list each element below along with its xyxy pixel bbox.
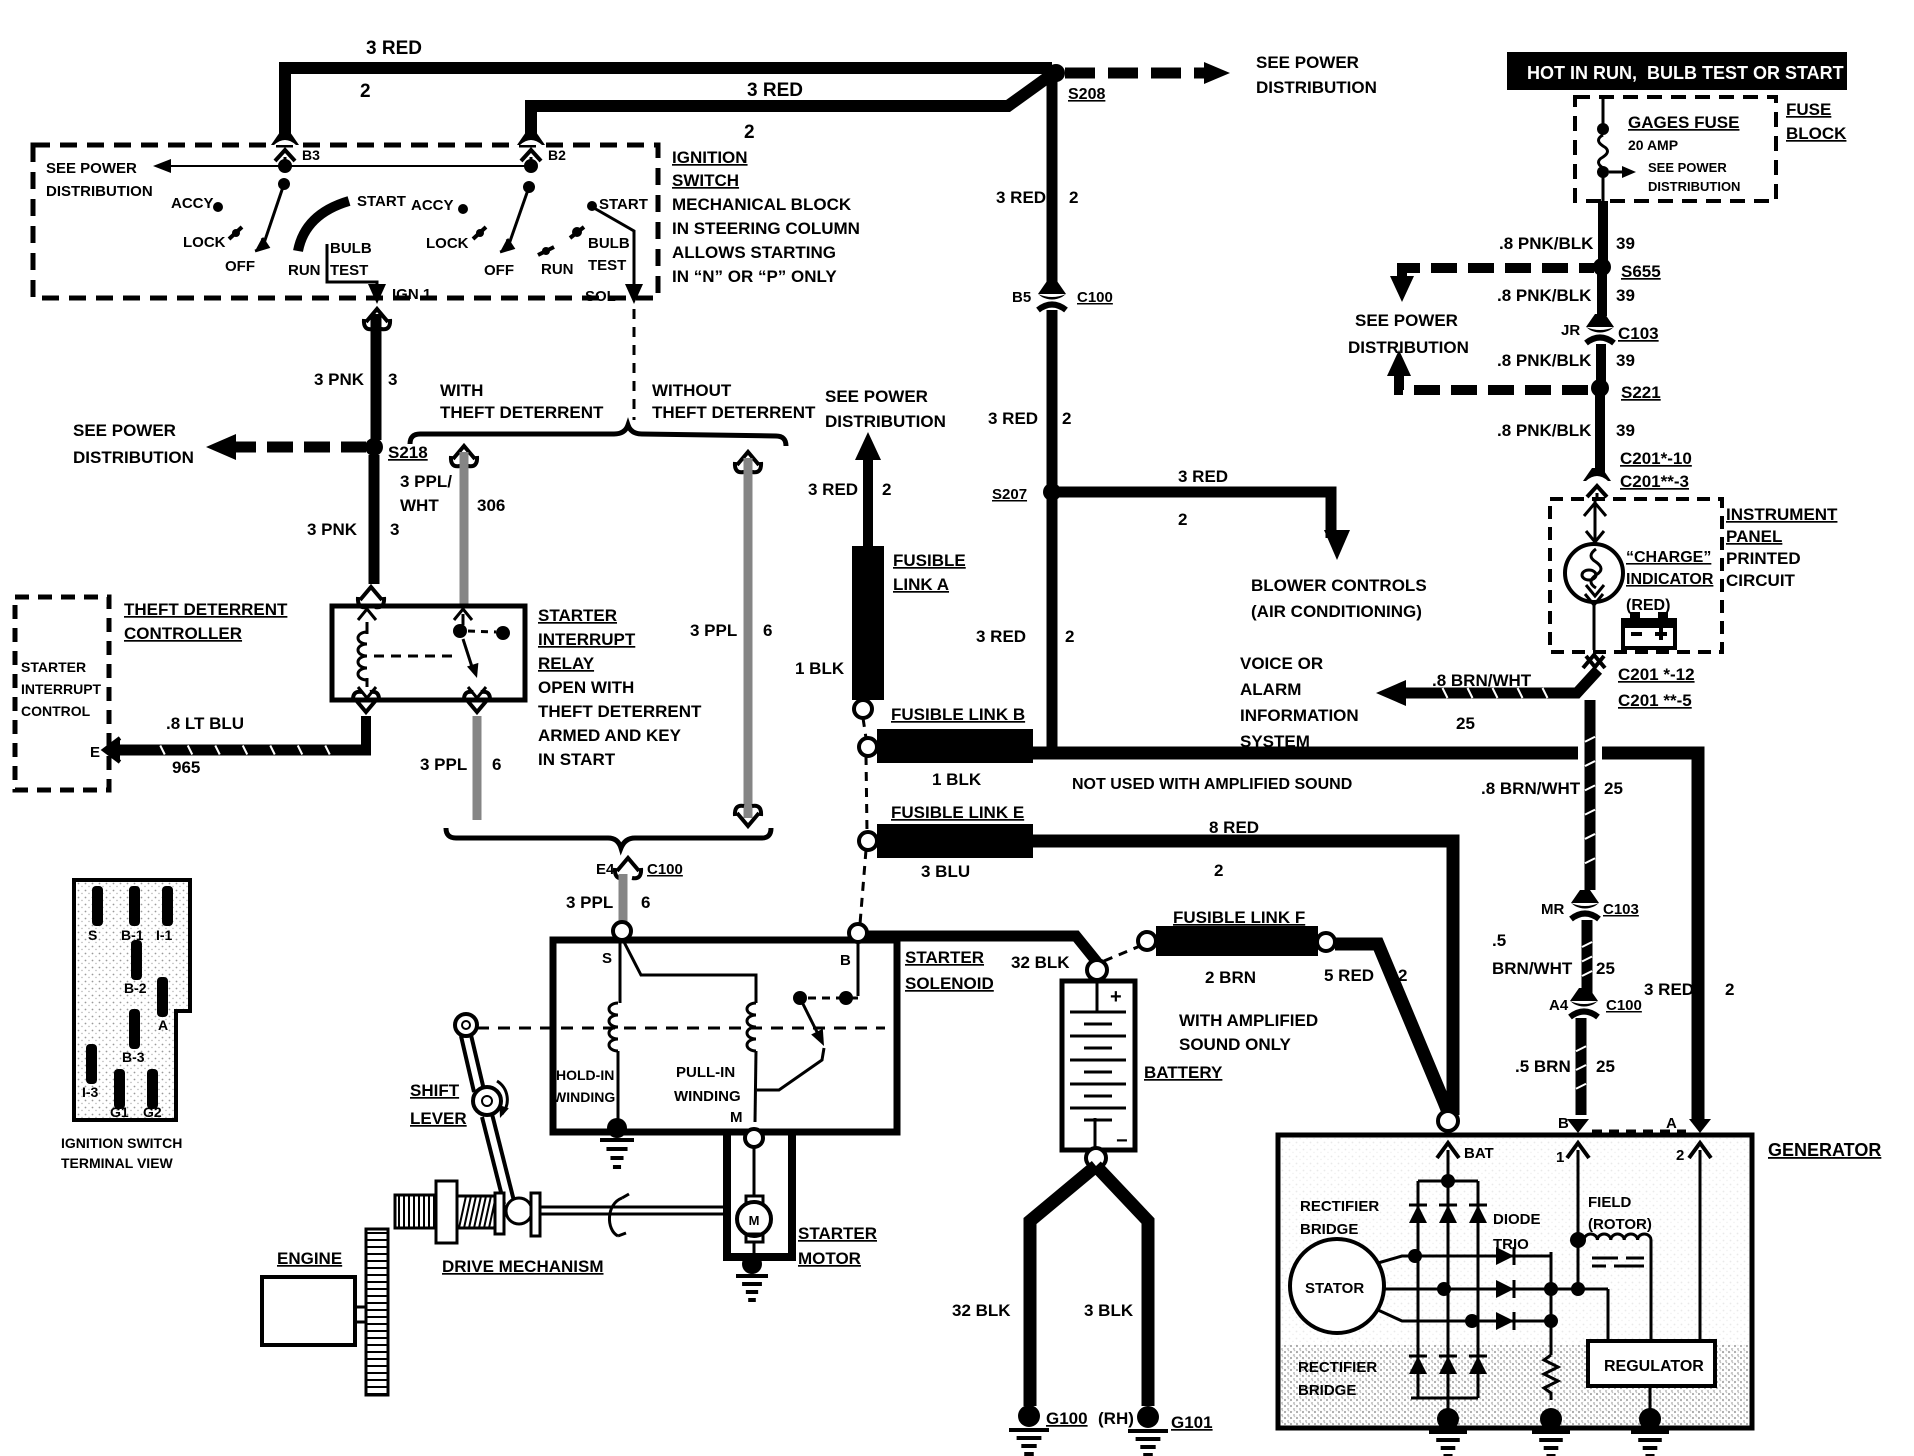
svg-text:JR: JR [1561, 322, 1580, 339]
svg-text:DISTRIBUTION: DISTRIBUTION [46, 183, 153, 200]
svg-text:RUN: RUN [288, 262, 321, 279]
svg-text:25: 25 [1596, 959, 1615, 978]
svg-text:B-2: B-2 [124, 980, 147, 996]
terminal B [849, 924, 867, 942]
svg-text:THEFT DETERRENT: THEFT DETERRENT [538, 702, 702, 721]
svg-text:3 BLK: 3 BLK [1084, 1301, 1134, 1320]
svg-text:STARTER: STARTER [905, 948, 984, 967]
svg-text:CONTROLLER: CONTROLLER [124, 624, 242, 643]
svg-text:S655: S655 [1621, 262, 1661, 281]
pin G2 [147, 1069, 158, 1109]
svg-text:E: E [90, 744, 100, 761]
svg-text:IGNITION SWITCH: IGNITION SWITCH [61, 1135, 182, 1151]
terminal S [613, 922, 631, 940]
fusible link B [859, 738, 877, 756]
svg-text:2: 2 [1062, 409, 1071, 428]
svg-text:.8 LT BLU: .8 LT BLU [166, 714, 244, 733]
svg-text:B: B [1558, 1115, 1569, 1132]
svg-text:LOCK: LOCK [183, 234, 226, 251]
svg-text:BLOCK: BLOCK [1786, 124, 1847, 143]
wire .8 LT BLU [118, 745, 371, 756]
svg-text:OFF: OFF [225, 258, 255, 275]
svg-text:C103: C103 [1618, 324, 1659, 343]
svg-text:S: S [602, 950, 612, 967]
svg-text:SWITCH: SWITCH [672, 171, 739, 190]
svg-text:GENERATOR: GENERATOR [1768, 1140, 1881, 1160]
regulator box [1588, 1341, 1715, 1386]
switch 2 START contact [587, 201, 597, 211]
svg-text:C201 *-12: C201 *-12 [1618, 665, 1695, 684]
wire dashed to power distribution left [230, 442, 366, 453]
svg-text:8 RED: 8 RED [1209, 818, 1259, 837]
svg-text:3 PNK: 3 PNK [307, 520, 358, 539]
svg-text:3 PPL: 3 PPL [420, 755, 467, 774]
svg-text:INSTRUMENT: INSTRUMENT [1726, 505, 1838, 524]
wire dashed link column [863, 718, 866, 738]
svg-text:B5: B5 [1012, 289, 1031, 306]
wire 5 RED link F to generator BAT [1335, 944, 1448, 1112]
svg-text:3 RED: 3 RED [808, 480, 858, 499]
drive T flange [531, 1193, 540, 1236]
svg-text:25: 25 [1456, 714, 1475, 733]
svg-text:DISTRIBUTION: DISTRIBUTION [1348, 338, 1469, 357]
svg-text:“CHARGE”: “CHARGE” [1626, 549, 1711, 566]
pin I-3 [86, 1044, 97, 1084]
svg-text:DISTRIBUTION: DISTRIBUTION [1648, 179, 1740, 194]
svg-text:SEE POWER: SEE POWER [825, 387, 928, 406]
svg-text:IN “N” OR “P” ONLY: IN “N” OR “P” ONLY [672, 267, 837, 286]
svg-text:3 RED: 3 RED [988, 409, 1038, 428]
svg-text:B2: B2 [548, 147, 566, 163]
generator box [1278, 1135, 1752, 1428]
svg-text:BATTERY: BATTERY [1144, 1063, 1223, 1082]
wire START to SOL [594, 208, 634, 285]
svg-text:A: A [1666, 1115, 1677, 1132]
wire 32 BLK solenoid B to battery [867, 936, 1097, 962]
wire 3 RED to blower controls [1058, 492, 1331, 538]
pin I-1 [162, 886, 173, 926]
svg-text:BULB: BULB [330, 240, 372, 257]
svg-text:SEE POWER: SEE POWER [46, 160, 137, 177]
svg-text:.5: .5 [1492, 931, 1506, 950]
svg-text:ENGINE: ENGINE [277, 1249, 342, 1268]
svg-text:S221: S221 [1621, 383, 1661, 402]
pin G1 [114, 1069, 125, 1109]
shift lever [455, 1014, 477, 1036]
svg-text:1 BLK: 1 BLK [932, 770, 982, 789]
svg-text:.5 BRN: .5 BRN [1515, 1057, 1571, 1076]
ground G100 [1018, 1405, 1040, 1427]
svg-text:(AIR CONDITIONING): (AIR CONDITIONING) [1251, 602, 1422, 621]
switch 1 LOCK contact [229, 227, 242, 239]
svg-text:3 RED: 3 RED [747, 80, 803, 101]
svg-text:IGN 1: IGN 1 [392, 286, 431, 303]
svg-text:ACCY: ACCY [411, 197, 454, 214]
svg-text:25: 25 [1604, 779, 1623, 798]
svg-text:WHT: WHT [400, 496, 439, 515]
svg-text:BULB: BULB [588, 235, 630, 252]
banner HOT IN RUN BULB TEST OR START [1507, 52, 1847, 90]
svg-text:G101: G101 [1171, 1413, 1213, 1432]
svg-text:(RH): (RH) [1098, 1409, 1134, 1428]
starter interrupt relay box [332, 606, 525, 700]
wire .5 BRN/WHT [1582, 920, 1593, 994]
svg-text:SOL: SOL [585, 288, 616, 305]
field to regulator connections [1551, 1288, 1608, 1291]
svg-text:(ROTOR): (ROTOR) [1588, 1216, 1652, 1233]
terminal BAT [1438, 1111, 1458, 1131]
svg-text:2 BRN: 2 BRN [1205, 968, 1256, 987]
svg-text:S: S [88, 927, 97, 943]
svg-text:ARMED AND KEY: ARMED AND KEY [538, 726, 682, 745]
svg-text:1 BLK: 1 BLK [795, 659, 845, 678]
svg-text:DRIVE MECHANISM: DRIVE MECHANISM [442, 1257, 604, 1276]
svg-text:C100: C100 [1606, 997, 1642, 1014]
node below link A [854, 700, 872, 718]
svg-text:I-3: I-3 [82, 1084, 99, 1100]
svg-text:B3: B3 [302, 147, 320, 163]
svg-text:BRIDGE: BRIDGE [1300, 1221, 1358, 1238]
svg-text:39: 39 [1616, 421, 1635, 440]
wire dashed link column 3 [860, 850, 866, 924]
wire 3 PPL 6 (grey, without theft deterrent) [735, 452, 761, 472]
battery + terminal [1087, 960, 1107, 980]
splice S218 [365, 438, 383, 456]
svg-text:S207: S207 [992, 486, 1027, 503]
svg-text:START: START [599, 196, 648, 213]
svg-text:FUSIBLE: FUSIBLE [893, 551, 966, 570]
pin S [92, 886, 103, 926]
svg-text:25: 25 [1596, 1057, 1615, 1076]
wire dashed SOL to brace [633, 309, 636, 420]
svg-text:2: 2 [744, 122, 755, 143]
svg-text:MR: MR [1541, 901, 1564, 918]
relay switch [454, 609, 472, 620]
svg-text:FUSIBLE LINK F: FUSIBLE LINK F [1173, 908, 1305, 927]
starter solenoid box [553, 940, 897, 1132]
wire .8 BRN/WHT vertical (instrument to generator B) [1578, 704, 1602, 788]
svg-text:2: 2 [1676, 1147, 1684, 1164]
svg-text:M: M [730, 1109, 743, 1126]
svg-text:LEVER: LEVER [410, 1109, 467, 1128]
svg-text:PULL-IN: PULL-IN [676, 1064, 735, 1081]
switch 2 lever [508, 187, 529, 247]
svg-text:STARTER: STARTER [538, 606, 617, 625]
svg-text:SEE POWER: SEE POWER [1355, 311, 1458, 330]
svg-text:3 RED: 3 RED [976, 627, 1026, 646]
wire relay coil to .8 LT BLU [353, 692, 379, 712]
svg-text:A: A [158, 1017, 168, 1033]
svg-text:ACCY: ACCY [171, 195, 214, 212]
svg-text:2: 2 [1178, 510, 1187, 529]
diode trio [1415, 1255, 1551, 1258]
svg-text:INTERRUPT: INTERRUPT [21, 681, 102, 697]
battery plates [1096, 981, 1099, 1012]
stator [1290, 1239, 1384, 1333]
fuse block dashed box [1575, 97, 1776, 201]
svg-text:20 AMP: 20 AMP [1628, 137, 1678, 153]
svg-text:.8 PNK/BLK: .8 PNK/BLK [1497, 421, 1592, 440]
svg-text:+: + [1110, 986, 1122, 1008]
svg-text:(RED): (RED) [1626, 597, 1670, 614]
svg-text:6: 6 [763, 621, 772, 640]
svg-text:HOT IN RUN, BULB TEST OR STAR: HOT IN RUN, BULB TEST OR START [1527, 63, 1844, 83]
charge indicator bulb [1594, 501, 1597, 541]
svg-text:PRINTED: PRINTED [1726, 549, 1801, 568]
wire IGN 1 [327, 244, 377, 292]
svg-text:WITHOUT: WITHOUT [652, 381, 732, 400]
drive hatched sleeve [457, 1196, 495, 1228]
rectifier diodes top [1409, 1204, 1427, 1207]
wire .8 PNK/BLK S221 to C201 [1595, 393, 1605, 478]
svg-text:REGULATOR: REGULATOR [1604, 1358, 1704, 1375]
svg-text:2: 2 [1065, 627, 1074, 646]
svg-text:1: 1 [1556, 1149, 1564, 1166]
svg-text:S208: S208 [1068, 86, 1105, 103]
switch 2 ACCY contact [458, 204, 468, 214]
svg-text:IN START: IN START [538, 750, 616, 769]
ignition switch dashed box [33, 145, 658, 298]
svg-text:START: START [357, 193, 406, 210]
svg-text:WITH: WITH [440, 381, 483, 400]
svg-text:.8 BRN/WHT: .8 BRN/WHT [1432, 671, 1532, 690]
solenoid switch [857, 941, 860, 996]
drive ball [506, 1198, 532, 1224]
svg-text:6: 6 [492, 755, 501, 774]
svg-text:ALLOWS STARTING: ALLOWS STARTING [672, 243, 836, 262]
svg-text:STARTER: STARTER [21, 659, 86, 675]
svg-text:A4: A4 [1549, 997, 1569, 1014]
svg-text:FUSIBLE LINK E: FUSIBLE LINK E [891, 803, 1024, 822]
wire .8 PNK/BLK fuse to S655 [1598, 201, 1608, 262]
svg-text:THEFT DETERRENT: THEFT DETERRENT [440, 403, 604, 422]
theft deterrent controller dashed box [15, 597, 109, 790]
svg-text:RECTIFIER: RECTIFIER [1298, 1359, 1377, 1376]
wire 3 PPL 6 relay output (grey) [464, 692, 490, 712]
svg-text:SEE POWER: SEE POWER [1648, 160, 1727, 175]
svg-text:2: 2 [1398, 966, 1407, 985]
svg-text:RELAY: RELAY [538, 654, 595, 673]
hold-in ground [607, 1118, 627, 1138]
wire .8 PNK/BLK C103 to S221 [1596, 344, 1606, 388]
drive mechanism worm [395, 1195, 438, 1228]
brace to E4 [446, 828, 771, 848]
solenoid link dashed line [477, 1027, 885, 1030]
svg-text:SYSTEM: SYSTEM [1240, 732, 1310, 751]
generator ground 1 [1437, 1408, 1459, 1430]
svg-text:I-1: I-1 [156, 927, 173, 943]
wire .8 PNK/BLK S655 to C103 [1597, 272, 1607, 316]
svg-text:2: 2 [1214, 861, 1223, 880]
svg-text:3 RED: 3 RED [366, 38, 422, 59]
wire 3 RED (top feed to B3) [285, 68, 1052, 140]
field rotor [1570, 1232, 1586, 1248]
svg-text:SOLENOID: SOLENOID [905, 974, 994, 993]
wire 32 BLK battery to G100 [1030, 1166, 1096, 1406]
splice S208 [1047, 64, 1065, 82]
switch 1 lever [263, 184, 284, 246]
svg-text:C100: C100 [1077, 289, 1113, 306]
svg-text:G2: G2 [143, 1104, 162, 1120]
svg-text:39: 39 [1616, 234, 1635, 253]
wire dashed S655 to power distribution [1402, 268, 1594, 276]
svg-text:965: 965 [172, 758, 200, 777]
svg-text:BRIDGE: BRIDGE [1298, 1382, 1356, 1399]
gages fuse [1602, 97, 1605, 126]
relay coil [366, 622, 369, 634]
rectifier bridge verticals [1441, 1174, 1455, 1188]
svg-text:DIODE: DIODE [1493, 1211, 1541, 1228]
svg-text:MOTOR: MOTOR [798, 1249, 861, 1268]
engine shaft stub [355, 1307, 366, 1322]
svg-text:DISTRIBUTION: DISTRIBUTION [825, 412, 946, 431]
ignition switch terminal view connector [74, 880, 190, 1120]
svg-text:2: 2 [882, 480, 891, 499]
svg-text:SHIFT: SHIFT [410, 1081, 460, 1100]
svg-text:TEST: TEST [330, 262, 368, 279]
svg-text:M: M [749, 1213, 760, 1228]
shaft rotation arc [609, 1198, 622, 1236]
svg-text:SEE POWER: SEE POWER [1256, 53, 1359, 72]
svg-text:TRIO: TRIO [1493, 1236, 1529, 1253]
svg-text:NOT USED WITH AMPLIFIED SOUND: NOT USED WITH AMPLIFIED SOUND [1072, 776, 1352, 793]
wire internal bus B3-B2 [160, 165, 531, 167]
wire 3 RED trunk S208 to C100 [1047, 78, 1058, 284]
svg-text:3: 3 [388, 370, 397, 389]
svg-text:C100: C100 [647, 861, 683, 878]
svg-text:IN STEERING COLUMN: IN STEERING COLUMN [672, 219, 860, 238]
svg-text:3 PPL: 3 PPL [566, 893, 613, 912]
svg-text:BLOWER CONTROLS: BLOWER CONTROLS [1251, 576, 1427, 595]
wire dashed S221 to power distribution [1387, 350, 1411, 376]
svg-text:WINDING: WINDING [553, 1089, 615, 1105]
svg-text:RUN: RUN [541, 261, 574, 278]
starter motor [753, 1147, 756, 1196]
svg-text:DISTRIBUTION: DISTRIBUTION [73, 448, 194, 467]
svg-text:STATOR: STATOR [1305, 1280, 1364, 1297]
switch 2 LOCK contact [473, 227, 486, 239]
svg-text:306: 306 [477, 496, 505, 515]
svg-text:2: 2 [1725, 980, 1734, 999]
svg-text:THEFT DETERRENT: THEFT DETERRENT [652, 403, 816, 422]
battery box [1062, 981, 1135, 1150]
svg-text:5 RED: 5 RED [1324, 966, 1374, 985]
fusible link A [852, 546, 884, 700]
svg-text:LINK A: LINK A [893, 575, 949, 594]
svg-text:32 BLK: 32 BLK [952, 1301, 1011, 1320]
engine box [262, 1277, 355, 1345]
svg-text:E4: E4 [596, 861, 615, 878]
svg-text:CIRCUIT: CIRCUIT [1726, 571, 1796, 590]
slip rings dashes [1592, 1257, 1618, 1260]
svg-text:HOLD-IN: HOLD-IN [556, 1067, 614, 1083]
svg-text:IGNITION: IGNITION [672, 148, 748, 167]
ground G101 [1137, 1406, 1159, 1428]
switch 2 RUN contact [538, 247, 554, 255]
pin B-1 [129, 886, 140, 926]
splice S207 [1043, 483, 1061, 501]
wire 3 RED C100 to S207 [1047, 310, 1058, 492]
svg-text:39: 39 [1616, 286, 1635, 305]
solenoid S internal wiring [619, 940, 622, 1003]
svg-text:BRN/WHT: BRN/WHT [1492, 959, 1573, 978]
svg-text:INDICATOR: INDICATOR [1626, 571, 1714, 588]
wire 3 RED S207 down [1047, 498, 1058, 753]
splice S655 [1593, 258, 1611, 276]
svg-text:FUSIBLE LINK B: FUSIBLE LINK B [891, 705, 1025, 724]
svg-text:GAGES FUSE: GAGES FUSE [1628, 113, 1739, 132]
svg-text:DISTRIBUTION: DISTRIBUTION [1256, 78, 1377, 97]
trio resistor [1544, 1355, 1558, 1400]
wire dashed to power distribution [1065, 68, 1206, 79]
svg-text:3 RED: 3 RED [1178, 467, 1228, 486]
relay mech link dashed [374, 655, 456, 658]
svg-text:B: B [840, 952, 851, 969]
svg-text:3 PPL: 3 PPL [690, 621, 737, 640]
wire 3 RED arrow up [855, 432, 881, 460]
svg-text:TEST: TEST [588, 257, 626, 274]
svg-text:2: 2 [360, 81, 371, 102]
wire 3 PNK S218 down [369, 455, 380, 584]
svg-text:ALARM: ALARM [1240, 680, 1301, 699]
svg-text:RECTIFIER: RECTIFIER [1300, 1198, 1379, 1215]
svg-text:OPEN WITH: OPEN WITH [538, 678, 634, 697]
fusible link E [859, 832, 877, 850]
instrument panel dashed box [1550, 499, 1722, 652]
svg-text:FIELD: FIELD [1588, 1194, 1631, 1211]
wire .8 BRN/WHT to voice alarm [1390, 670, 1598, 693]
svg-text:WITH AMPLIFIED: WITH AMPLIFIED [1179, 1011, 1318, 1030]
rectifier bottom bus [1411, 1397, 1478, 1400]
drive flange [436, 1181, 457, 1243]
svg-text:C201*-10: C201*-10 [1620, 449, 1692, 468]
wire 3 RED (feed to B2) [531, 75, 1051, 140]
svg-text:.8 PNK/BLK: .8 PNK/BLK [1497, 286, 1592, 305]
svg-text:VOICE OR: VOICE OR [1240, 654, 1323, 673]
wire 3 BLK battery to G101 [1096, 1166, 1148, 1406]
svg-text:B-1: B-1 [121, 927, 144, 943]
svg-text:B-3: B-3 [122, 1049, 145, 1065]
pin A [157, 977, 168, 1017]
svg-text:−: − [1116, 1130, 1128, 1152]
wire trunk to generator A [1033, 753, 1698, 1122]
svg-text:2: 2 [1069, 188, 1078, 207]
wire dashed link column 2 [866, 756, 867, 832]
battery - terminal [1086, 1148, 1106, 1168]
svg-text:6: 6 [641, 893, 650, 912]
regulator ground [1649, 1386, 1652, 1412]
svg-text:INTERRUPT: INTERRUPT [538, 630, 636, 649]
splice S221 [1591, 379, 1609, 397]
dashed line B-A [1592, 1130, 1686, 1133]
svg-text:TERMINAL VIEW: TERMINAL VIEW [61, 1155, 174, 1171]
svg-text:BAT: BAT [1464, 1145, 1494, 1162]
svg-text:32 BLK: 32 BLK [1011, 953, 1070, 972]
wire 3 PPL 6 to solenoid S (grey) [619, 874, 628, 924]
pin B-2 [131, 940, 142, 980]
wire 3 PPL/WHT 306 (grey) [451, 446, 477, 466]
connector B2 [517, 132, 545, 164]
svg-text:MECHANICAL BLOCK: MECHANICAL BLOCK [672, 195, 852, 214]
svg-text:FUSE: FUSE [1786, 100, 1831, 119]
flywheel gear [366, 1229, 388, 1395]
svg-text:STARTER: STARTER [798, 1224, 877, 1243]
svg-text:3 PNK: 3 PNK [314, 370, 365, 389]
svg-text:G1: G1 [110, 1104, 129, 1120]
svg-text:PANEL: PANEL [1726, 527, 1782, 546]
svg-text:G100: G100 [1046, 1409, 1088, 1428]
svg-text:S218: S218 [388, 443, 428, 462]
